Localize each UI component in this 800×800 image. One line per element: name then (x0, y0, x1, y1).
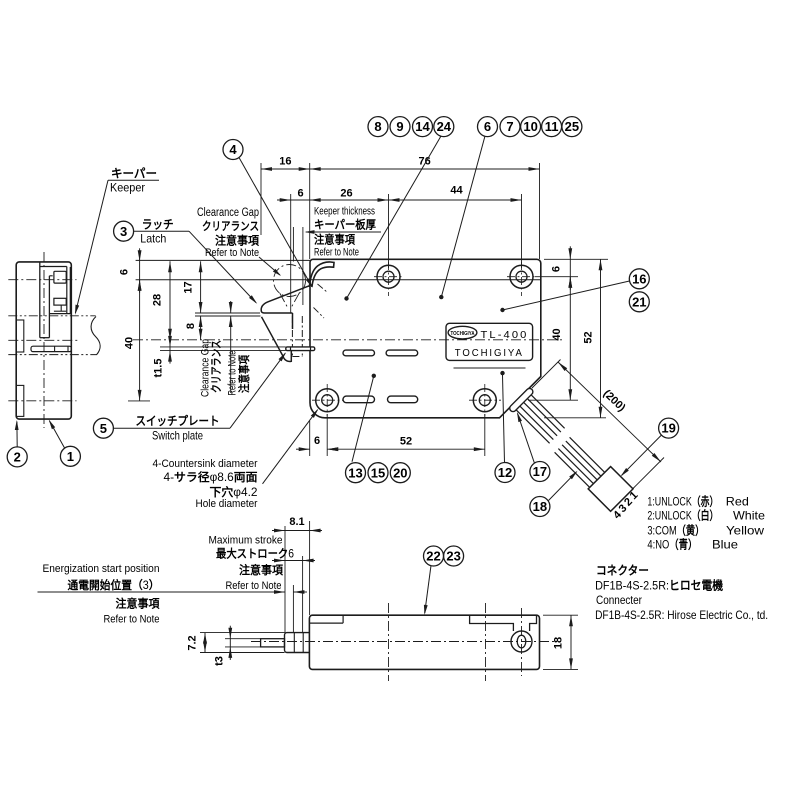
side view: left sensor block (16, 320, 24, 352)
svg-text:25: 25 (565, 119, 579, 134)
upper slots (343, 350, 375, 356)
svg-text:Keeper thickness: Keeper thickness (314, 206, 375, 218)
svg-text:11: 11 (545, 119, 559, 134)
svg-text:Clearance Gap: Clearance Gap (197, 207, 259, 219)
svg-text:注意事項: 注意事項 (314, 233, 355, 247)
svg-text:4: 4 (229, 142, 237, 157)
svg-text:Latch: Latch (140, 232, 166, 246)
svg-text:Refer to Note: Refer to Note (314, 247, 359, 259)
balloon callout 15 (368, 463, 388, 483)
balloon callout 13 (346, 463, 366, 483)
switch plate protruding (front view) (286, 347, 315, 351)
left chain: dim t1.5 (169, 334, 171, 364)
side view internal: central post (39, 263, 41, 338)
leader balloon 24 (347, 136, 442, 299)
top reference extension line (136, 259, 310, 261)
svg-text:14: 14 (415, 119, 430, 134)
svg-text:8: 8 (374, 119, 381, 134)
balloon callout 21 (629, 292, 649, 312)
svg-text:28: 28 (152, 294, 164, 306)
leader balloons 13/15/20 (352, 376, 374, 462)
svg-text:注意事項: 注意事項 (116, 597, 160, 611)
svg-text:9: 9 (396, 119, 403, 134)
svg-text:15: 15 (371, 465, 385, 480)
svg-text:7.2: 7.2 (187, 635, 199, 650)
keeper plate phantom top edge (8, 315, 95, 317)
svg-text:Energization start position: Energization start position (43, 563, 160, 575)
bottom view: max stroke dim (302, 556, 304, 633)
svg-text:注意事項: 注意事項 (237, 355, 251, 393)
bottom view: dim 7.2 (200, 632, 285, 634)
balloon callout 10 (521, 117, 541, 137)
balloon callout 25 (562, 117, 582, 137)
balloon callout 9 (390, 117, 410, 137)
balloon callout 18 (530, 497, 550, 517)
mounting hole bottom-left (316, 389, 339, 412)
svg-text:注意事項: 注意事項 (239, 563, 283, 577)
bottom view screw boss and oval hole (511, 631, 532, 652)
leader balloon 1 (49, 421, 64, 449)
hidden slot dashed lines (291, 316, 293, 357)
right chain: dim 6 (544, 258, 608, 260)
cable grommet on chamfer (508, 387, 534, 413)
leader balloon 4 (239, 158, 312, 287)
svg-text:3: 3 (120, 224, 127, 239)
svg-text:10: 10 (523, 119, 537, 134)
balloon callout 5 (93, 418, 113, 438)
leader latch (balloon 3) (133, 230, 189, 232)
balloon callout 24 (434, 117, 454, 137)
keeper plate phantom bottom edge (8, 354, 97, 356)
svg-text:通電開始位置（3）: 通電開始位置（3） (68, 578, 160, 592)
plunger block (285, 633, 310, 653)
leader balloon 12 (503, 375, 505, 463)
leader balloon 2 (16, 422, 18, 447)
svg-text:52: 52 (400, 436, 412, 448)
svg-text:Clearance Gap: Clearance Gap (200, 339, 212, 397)
side view horizontal centerlines (8, 279, 76, 281)
wire bundle segment 2 (555, 437, 608, 490)
svg-text:ラッチ: ラッチ (142, 218, 174, 232)
svg-text:16: 16 (279, 156, 291, 168)
bottom view centerlines (251, 641, 556, 643)
dim 26 (second row) (388, 194, 390, 268)
svg-text:Yellow: Yellow (726, 524, 764, 538)
balloon callout 20 (390, 463, 410, 483)
svg-text:6: 6 (551, 266, 563, 272)
svg-text:13: 13 (348, 465, 362, 480)
svg-text:6: 6 (297, 188, 303, 200)
side view internal: upper block (54, 271, 66, 283)
balloon callout 4 (223, 140, 243, 160)
svg-text:TOCHIGIYA: TOCHIGIYA (455, 348, 524, 359)
bottom view notch (470, 615, 514, 631)
svg-text:下穴φ4.2: 下穴φ4.2 (210, 485, 258, 499)
left chain: dim 8 (200, 316, 202, 340)
svg-text:19: 19 (661, 421, 675, 436)
internal edge line below label plate (454, 367, 526, 369)
leader balloon 17 (518, 414, 535, 464)
keeper centerline ticks (314, 308, 325, 319)
latch slot edge inside side view (49, 313, 72, 315)
mounting hole bottom-right (473, 389, 496, 412)
svg-text:4:NO（青）: 4:NO（青） (647, 537, 697, 552)
side view: bottom-left block (16, 385, 24, 416)
balloon callout 7 (500, 117, 520, 137)
svg-text:Hole diameter: Hole diameter (196, 498, 258, 510)
dim 76 (top row) (310, 168, 540, 170)
svg-text:2: 2 (14, 450, 21, 465)
svg-text:Switch plate: Switch plate (152, 429, 203, 443)
leader balloons 22/23 (425, 566, 431, 614)
right chain: dim 40 (528, 399, 578, 401)
balloon callout 1 (60, 446, 80, 466)
side view vertical centerline (43, 252, 45, 428)
bottom view: dim 8.1 (284, 526, 286, 633)
svg-text:キーパー: キーパー (111, 167, 157, 181)
balloon callout 23 (444, 546, 464, 566)
svg-text:Maximum stroke: Maximum stroke (209, 535, 283, 547)
svg-text:18: 18 (553, 637, 565, 649)
leader balloon 19 (622, 435, 662, 475)
svg-text:コネクター: コネクター (596, 564, 649, 578)
svg-text:20: 20 (393, 465, 407, 480)
dim 16 (top row) (260, 163, 262, 235)
bottom view: dim 18 (543, 614, 578, 616)
svg-text:注意事項: 注意事項 (215, 234, 259, 248)
keeper thickness note leader (306, 231, 381, 233)
horizontal centerline of front view (133, 339, 564, 341)
balloon callout 14 (413, 117, 433, 137)
left chain: dim 28 (169, 261, 171, 340)
dim 44 (second row) (521, 194, 523, 268)
svg-text:16: 16 (632, 271, 646, 286)
balloon callout 16 (629, 269, 649, 289)
dim 6 (second row) (290, 194, 292, 313)
bottom view: dim t3 (225, 638, 261, 640)
svg-text:最大ストローク6: 最大ストローク6 (216, 547, 294, 561)
keeper break squiggle (91, 317, 100, 355)
side view: switch plate bar (31, 346, 71, 351)
svg-text:21: 21 (632, 294, 646, 309)
svg-text:1: 1 (67, 449, 74, 464)
side view body (16, 262, 71, 419)
clearance gap dimension (latch to keeper) (230, 301, 232, 313)
balloon callout 22 (424, 546, 444, 566)
svg-text:4-サラ径φ8.6両面: 4-サラ径φ8.6両面 (164, 470, 259, 484)
balloon callout 19 (659, 418, 679, 438)
leader balloon 6 (441, 136, 485, 297)
bottom view switch plate edge (309, 622, 343, 624)
svg-text:White: White (733, 509, 765, 523)
svg-text:Blue: Blue (712, 538, 738, 552)
svg-text:6: 6 (314, 435, 320, 447)
left chain: dim 6 (139, 248, 141, 292)
bottom view body (309, 615, 539, 669)
svg-text:t3: t3 (214, 656, 226, 666)
svg-text:40: 40 (124, 337, 136, 349)
plunger rod (261, 639, 285, 647)
svg-text:キーパー板厚: キーパー板厚 (314, 218, 376, 232)
svg-text:t1.5: t1.5 (153, 359, 165, 378)
right chain: dim 52 (544, 417, 606, 419)
svg-text:Refer to Note: Refer to Note (104, 614, 160, 626)
svg-text:6: 6 (484, 119, 491, 134)
svg-text:24: 24 (437, 119, 452, 134)
svg-text:Refer to Note: Refer to Note (226, 580, 282, 592)
svg-text:4-Countersink diameter: 4-Countersink diameter (153, 458, 258, 470)
svg-text:12: 12 (498, 465, 512, 480)
keeper hook cross-section curl (309, 262, 334, 287)
(200) cable length dimension (532, 360, 561, 389)
svg-text:スイッチプレート: スイッチプレート (136, 413, 220, 428)
svg-text:TL-400: TL-400 (481, 329, 529, 341)
svg-text:Connecter: Connecter (596, 593, 642, 607)
balloon callout 12 (495, 463, 515, 483)
keeper plate edge line across front view (136, 279, 541, 281)
svg-text:18: 18 (533, 499, 547, 514)
svg-text:TOCHIGIYA: TOCHIGIYA (451, 331, 475, 337)
svg-text:クリアランス: クリアランス (210, 340, 223, 393)
mounting hole top-right (510, 265, 533, 288)
balloon callout 3 (114, 221, 134, 241)
svg-text:3:COM（黄）: 3:COM（黄） (647, 523, 704, 538)
leader balloon 18 (549, 472, 577, 501)
balloon callout 11 (542, 117, 562, 137)
latch claw outline (261, 285, 310, 329)
svg-text:44: 44 (450, 185, 463, 197)
svg-text:1:UNLOCK（赤）: 1:UNLOCK（赤） (647, 494, 718, 509)
svg-text:22: 22 (426, 549, 440, 564)
leader clearance gap note (259, 257, 280, 275)
svg-text:DF1B-4S-2.5R: Hirose Electric: DF1B-4S-2.5R: Hirose Electric Co., td. (595, 608, 768, 622)
bottom dims 6 and 52 (309, 421, 311, 456)
svg-text:17: 17 (183, 281, 195, 293)
left chain: dim 40 (139, 280, 141, 401)
svg-text:40: 40 (551, 328, 563, 340)
svg-text:Refer to Note: Refer to Note (205, 247, 259, 259)
svg-text:8: 8 (185, 323, 197, 329)
leader to keeper (108, 179, 159, 181)
latch swing path (phantom) (274, 265, 306, 297)
svg-text:17: 17 (533, 464, 547, 479)
svg-text:クリアランス: クリアランス (202, 220, 259, 233)
lower slots (343, 396, 375, 403)
leader balloons 16/21 (503, 281, 630, 310)
svg-text:Keeper: Keeper (110, 181, 145, 195)
left chain: dim 17 (200, 261, 202, 313)
svg-text:Red: Red (726, 495, 749, 509)
TL-400 label plate (446, 323, 533, 360)
side view internal: lower block (54, 298, 66, 305)
svg-text:26: 26 (340, 188, 352, 200)
balloon callout 2 (7, 447, 27, 467)
wire bundle segment 1 (514, 392, 565, 443)
main front view: lock body outline (310, 259, 541, 418)
svg-text:7: 7 (506, 119, 513, 134)
connector body (588, 467, 633, 512)
svg-text:5: 5 (100, 421, 107, 436)
svg-text:Refer to Note: Refer to Note (227, 351, 239, 396)
leader balloon 5 / switch plate (113, 427, 230, 429)
side view internal: top inner edge (40, 266, 67, 268)
svg-text:2:UNLOCK（白）: 2:UNLOCK（白） (647, 508, 718, 523)
mounting hole top-left (377, 265, 400, 288)
leader 4-countersink note (263, 410, 318, 484)
bottom view: energization start dim (292, 585, 294, 633)
balloon callout 6 (478, 117, 498, 137)
svg-text:23: 23 (446, 549, 460, 564)
balloon callout 8 (368, 117, 388, 137)
svg-text:6: 6 (119, 269, 131, 275)
svg-text:DF1B-4S-2.5R:ヒロセ電機: DF1B-4S-2.5R:ヒロセ電機 (595, 578, 723, 593)
balloon callout 17 (530, 462, 550, 482)
svg-text:52: 52 (583, 331, 595, 343)
svg-text:8.1: 8.1 (289, 516, 304, 528)
